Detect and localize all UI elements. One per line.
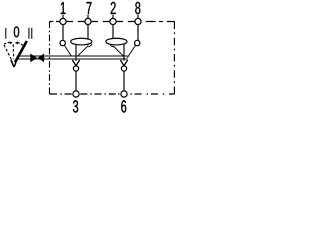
detent symbol left triangle	[30, 54, 37, 63]
label terminal 1	[61, 2, 66, 14]
travel arc right	[18, 43, 23, 46]
wire terminal 8 to contact	[137, 25, 139, 41]
terminal 8	[135, 18, 141, 24]
label terminal 2	[111, 2, 116, 14]
terminal 6	[121, 91, 127, 97]
wire bridge A to contact 3	[75, 44, 77, 61]
label terminal 7	[87, 2, 92, 14]
travel arc left arrowhead	[10, 41, 13, 44]
label position I	[5, 28, 7, 39]
terminal 2	[110, 18, 116, 24]
label terminal 6	[121, 100, 126, 112]
terminal 7	[85, 18, 91, 24]
travel arc right arrowhead	[15, 41, 18, 44]
wire lead terminal 2 stub	[112, 15, 114, 19]
wire terminal 7 to bridge	[87, 25, 89, 46]
bridge loop A hook	[88, 44, 92, 47]
contact point K6	[121, 66, 126, 71]
bridge loop B hook	[110, 45, 113, 47]
detent symbol right triangle	[38, 54, 44, 63]
wire contact to terminal 3	[75, 71, 77, 91]
lever pivot arrowhead	[11, 59, 17, 67]
label position II stem 2	[31, 28, 33, 39]
contact blade K8	[127, 45, 135, 58]
lever position 0 dashed	[12, 44, 15, 58]
label position 0	[14, 26, 19, 37]
contact point K3	[73, 66, 78, 71]
lever position I dashed	[4, 45, 12, 62]
bridge contact loop A	[71, 38, 92, 45]
bridge blade A	[78, 46, 88, 56]
contact point K1	[60, 40, 65, 45]
arrow contact B	[120, 60, 127, 66]
wire lead terminal 1 stub	[62, 15, 64, 19]
terminal 1	[60, 18, 66, 24]
enclosure bottom border	[50, 93, 175, 95]
wire lead terminal 8 stub	[137, 15, 139, 19]
bridge blade B	[113, 46, 123, 56]
wire bridge B to contact 6	[123, 44, 125, 61]
mechanical link bar upper line	[19, 55, 128, 57]
wire contact to terminal 6	[123, 71, 125, 91]
arrow contact A	[72, 60, 79, 66]
lever position II solid	[15, 41, 27, 62]
label position II stem 1	[28, 28, 30, 39]
travel arc left	[4, 42, 9, 44]
label terminal 8	[135, 2, 140, 14]
terminal 3	[73, 91, 79, 97]
wire lead terminal 7 stub	[87, 15, 89, 19]
wire terminal 2 to bridge	[112, 25, 114, 46]
contact point K8	[135, 40, 140, 45]
label terminal 3	[73, 100, 78, 112]
enclosure top border	[50, 21, 175, 23]
mechanical link bar lower line	[17, 58, 128, 60]
bridge contact loop B	[106, 38, 127, 45]
wire terminal 1 to contact	[62, 25, 64, 41]
enclosure left border	[49, 22, 51, 95]
enclosure right border	[173, 22, 175, 95]
contact blade K1	[64, 45, 71, 56]
